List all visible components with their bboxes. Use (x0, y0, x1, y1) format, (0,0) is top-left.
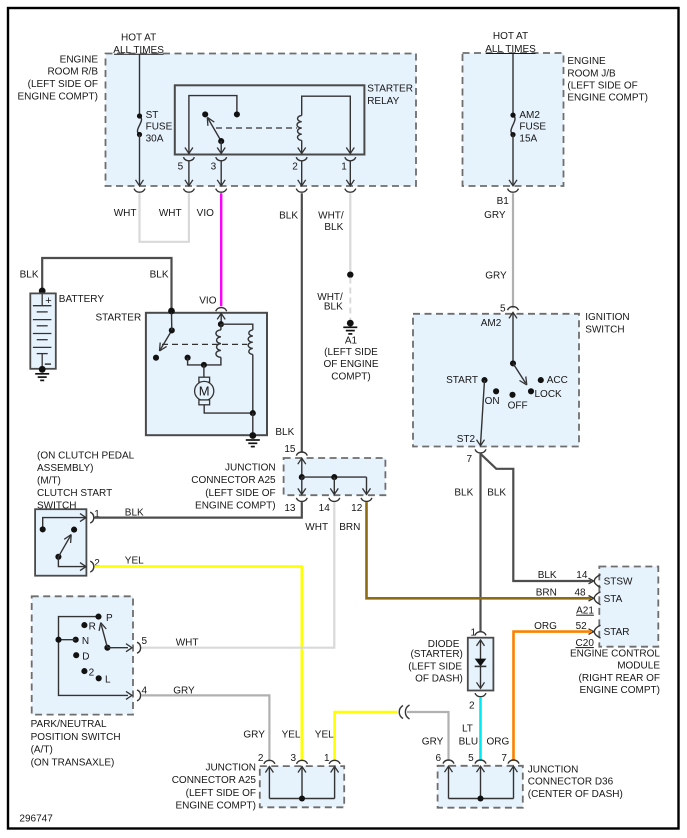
clutch start switch box (35, 509, 86, 576)
svg-text:JUNCTION: JUNCTION (225, 462, 276, 473)
connector A25b pin 1 (324, 753, 340, 773)
P/N left bus (59, 617, 133, 700)
page number 296747 (19, 814, 53, 825)
svg-text:FUSE: FUSE (519, 122, 546, 133)
label BLK (right) (487, 487, 506, 498)
svg-text:AM2: AM2 (481, 318, 502, 329)
svg-text:ENGINE COMPT): ENGINE COMPT) (567, 93, 648, 104)
relay contact feed wire (pin 5 hook) (185, 96, 240, 154)
label BLK (starter feed) (150, 269, 169, 280)
connector clutch pin 2 (90, 558, 100, 572)
starter pull-in coil (204, 313, 224, 365)
svg-text:R: R (89, 621, 96, 632)
svg-text:GRY: GRY (484, 210, 506, 221)
label ST2 (457, 434, 476, 445)
wire BLK battery to starter (42, 258, 171, 310)
svg-text:AM2: AM2 (519, 110, 540, 121)
diode (starter) box (468, 638, 494, 691)
starter motor node (201, 362, 207, 368)
svg-text:CONNECTOR A25: CONNECTOR A25 (191, 475, 276, 486)
relay switch arm (207, 117, 224, 144)
svg-text:ORG: ORG (487, 736, 510, 747)
svg-text:52: 52 (576, 621, 588, 632)
label GRY (lower) (485, 271, 507, 282)
node L (96, 675, 111, 686)
wire VIO relay pin 3 to starter (220, 193, 222, 306)
wire LT BLU diode to D36 pin 5 (479, 697, 482, 761)
svg-text:ASSEMBLY): ASSEMBLY) (37, 463, 94, 474)
label WHT (P/N) (176, 638, 199, 649)
svg-text:7: 7 (466, 454, 472, 465)
wire GRY B1 to ignition switch (512, 193, 514, 308)
label C20 (576, 638, 595, 649)
ignition switch box (413, 314, 579, 447)
svg-text:B1: B1 (497, 196, 510, 207)
wire hot feed to AM2 fuse (512, 54, 514, 115)
svg-text:(CENTER OF DASH): (CENTER OF DASH) (528, 789, 623, 800)
svg-text:ACC: ACC (547, 375, 568, 386)
park/neutral position switch box (32, 596, 133, 714)
svg-text:STARTER: STARTER (367, 84, 413, 95)
wire GRY P/N to A25 bottom pin 2 (141, 695, 269, 761)
svg-text:GRY: GRY (243, 729, 265, 740)
svg-text:N: N (82, 636, 89, 647)
label A1 (323, 336, 378, 383)
A25 bottom internal bus (269, 767, 334, 802)
node R (81, 621, 95, 632)
label WHT/BLK (mid) (317, 292, 343, 313)
label GRY (D36) (422, 736, 444, 747)
svg-text:IGNITION: IGNITION (585, 312, 629, 323)
node START (446, 375, 487, 386)
wire ST fuse to R/B edge (136, 135, 144, 186)
svg-text:STA: STA (604, 594, 623, 605)
ground A1 (343, 320, 357, 334)
label YEL (clutch pin 2) (125, 555, 144, 566)
label BLK (left) (454, 487, 473, 498)
svg-text:PARK/NEUTRAL: PARK/NEUTRAL (31, 719, 107, 730)
svg-text:ENGINE COMPT): ENGINE COMPT) (17, 92, 98, 103)
svg-text:WHT: WHT (305, 522, 328, 533)
svg-text:1: 1 (470, 627, 476, 638)
relay mechanical link (dashed) (216, 127, 297, 129)
starter hold-in coil (221, 324, 253, 413)
svg-text:(A/T): (A/T) (31, 745, 53, 756)
svg-text:6: 6 (435, 753, 441, 764)
relay box STARTER RELAY (175, 85, 365, 154)
connector ECM pin 52 STAR (589, 625, 630, 638)
starter box (146, 313, 267, 435)
connector ignition pin 7 ST2 (466, 449, 486, 465)
wire YEL A25 bottom pin 1 to connector (335, 712, 398, 761)
node ON (485, 388, 500, 407)
wire YEL clutch to A25 bottom pin 3 (95, 567, 302, 762)
label BLK (clutch pin 1) (125, 507, 144, 518)
label diode caption (408, 639, 463, 685)
svg-text:BLK: BLK (538, 570, 557, 581)
connector ECM pin 14 STSW (589, 575, 634, 588)
connector ignition pin 5 (500, 303, 519, 318)
svg-text:ON: ON (485, 396, 500, 407)
label VIO (at starter) (199, 296, 216, 307)
node D (73, 652, 89, 663)
svg-text:DIODE: DIODE (428, 639, 460, 650)
label BRN 48 (536, 588, 586, 599)
svg-text:BRN: BRN (536, 588, 557, 599)
ground (starter) (246, 432, 260, 447)
svg-text:YEL: YEL (315, 729, 334, 740)
svg-text:BATTERY: BATTERY (59, 294, 105, 305)
svg-text:C20: C20 (576, 638, 595, 649)
svg-text:STARTER: STARTER (95, 313, 141, 324)
svg-text:WHT: WHT (114, 208, 137, 219)
svg-text:HOT AT: HOT AT (121, 32, 156, 43)
svg-text:1: 1 (341, 161, 347, 172)
label LT BLU (D36) (459, 723, 478, 747)
junction connector A25 box (284, 458, 386, 495)
motor M (195, 365, 253, 413)
inline connector (YEL/GRY) (399, 705, 409, 719)
label YEL (pin 1) (315, 729, 334, 740)
connector VIO at starter (216, 308, 227, 320)
wire WHT/BLK dashed to ground A1 (349, 278, 351, 322)
starter ground node (250, 410, 256, 435)
label A21 (576, 606, 594, 617)
svg-text:(ON TRANSAXLE): (ON TRANSAXLE) (31, 757, 115, 768)
clutch switch contact (pin1 side) (40, 514, 86, 533)
svg-text:12: 12 (351, 503, 363, 514)
svg-text:5: 5 (468, 753, 474, 764)
label STARTER RELAY (367, 84, 413, 107)
label JUNCTION CONNECTOR D36 (528, 764, 623, 799)
wire BRN A25 pin 12 to ECM pin 48 (367, 502, 592, 598)
svg-text:COMPT): COMPT) (331, 371, 370, 382)
label ORG 52 (534, 621, 587, 632)
svg-text:(LEFT SIDE OF: (LEFT SIDE OF (186, 788, 256, 799)
wire BLK ST2 to diode (479, 454, 481, 632)
fuse ST FUSE 30A (137, 110, 173, 145)
A25 internal bus (298, 458, 371, 494)
svg-text:VIO: VIO (199, 296, 216, 307)
connector diode pin 2 (469, 693, 486, 712)
svg-text:L: L (105, 675, 111, 686)
ignition feed wire (512, 312, 514, 363)
svg-text:BRN: BRN (339, 522, 360, 533)
svg-text:5: 5 (178, 161, 184, 172)
label STARTER (95, 313, 141, 324)
P/N switch arm (99, 623, 110, 651)
connector ECM pin 48 STA (589, 592, 623, 605)
svg-text:ENGINE COMPT): ENGINE COMPT) (175, 801, 256, 812)
label ECM caption (570, 649, 660, 697)
label JUNCTION CONNECTOR A25 (middle) (191, 462, 276, 511)
svg-text:ROOM J/B: ROOM J/B (567, 68, 616, 79)
wire WHT fuse-to-relay jumper (140, 193, 189, 242)
svg-text:15A: 15A (519, 133, 537, 144)
svg-text:48: 48 (574, 588, 586, 599)
svg-text:ORG: ORG (534, 621, 557, 632)
clutch switch arm (55, 535, 71, 560)
svg-text:296747: 296747 (19, 814, 53, 825)
svg-text:POSITION SWITCH: POSITION SWITCH (31, 732, 121, 743)
svg-text:BLK: BLK (454, 487, 473, 498)
svg-text:BLK: BLK (20, 269, 39, 280)
label WHT/BLK (pin 1) (318, 211, 344, 234)
label ORG (D36) (487, 736, 510, 747)
label IGNITION SWITCH (585, 312, 629, 335)
starter feed node (168, 308, 175, 315)
svg-text:BLK: BLK (275, 427, 294, 438)
svg-text:ENGINE COMPT): ENGINE COMPT) (579, 685, 660, 696)
label YEL (pin 3) (282, 729, 301, 740)
ignition rotor arm (510, 360, 527, 385)
junction connector A25 bottom box (260, 766, 344, 807)
relay pin 2 connector (292, 157, 307, 192)
fuse AM2 FUSE 15A (510, 110, 546, 145)
svg-text:LT: LT (462, 723, 473, 734)
clutch switch upper contact (71, 527, 77, 533)
svg-text:P: P (106, 613, 113, 624)
svg-text:JUNCTION: JUNCTION (205, 763, 256, 774)
svg-text:LOCK: LOCK (535, 389, 563, 400)
label HOT AT ALL TIMES (right) (485, 31, 536, 55)
label GRY (P/N) (173, 686, 195, 697)
svg-text:ST: ST (146, 110, 159, 121)
label HOT AT ALL TIMES (left) (113, 32, 164, 56)
svg-text:A1: A1 (345, 336, 358, 347)
node LOCK (528, 388, 562, 400)
svg-text:BLU: BLU (459, 736, 478, 747)
label clutch switch caption (37, 451, 135, 512)
svg-text:STSW: STSW (604, 577, 633, 588)
wire GRY connector to D36 pin 6 (407, 712, 449, 761)
svg-text:HOT AT: HOT AT (493, 31, 528, 42)
svg-text:OF DASH): OF DASH) (415, 674, 463, 685)
svg-text:(STARTER): (STARTER) (410, 649, 462, 660)
svg-text:14: 14 (319, 503, 331, 514)
label ENGINE ROOM R/B (17, 54, 98, 102)
svg-text:3: 3 (290, 753, 296, 764)
label park/neutral caption (31, 719, 121, 768)
svg-text:(LEFT SIDE OF: (LEFT SIDE OF (205, 488, 275, 499)
svg-text:BLK: BLK (279, 211, 298, 222)
relay arm to pin 3 (217, 141, 225, 153)
battery BATTERY (30, 288, 56, 373)
connector at R/B edge (fuse output) (134, 189, 145, 193)
svg-text:CLUTCH START: CLUTCH START (37, 488, 112, 499)
svg-text:CONNECTOR D36: CONNECTOR D36 (528, 777, 614, 788)
svg-text:(LEFT SIDE: (LEFT SIDE (324, 347, 378, 358)
svg-text:15: 15 (284, 444, 296, 455)
svg-text:GRY: GRY (422, 736, 444, 747)
relay fixed contact (202, 111, 208, 117)
svg-text:YEL: YEL (282, 729, 301, 740)
wire BLK relay pin 2 to junction A25 pin 15 (301, 193, 303, 452)
svg-text:30A: 30A (146, 133, 164, 144)
connector D36 pin 7 (501, 753, 519, 772)
node 2 (81, 668, 94, 679)
connector A25 pin 12 (351, 498, 372, 514)
svg-text:BLK: BLK (487, 487, 506, 498)
starter solenoid switch (153, 313, 175, 361)
label AM2 (ignition) (481, 318, 502, 329)
svg-text:D: D (82, 652, 89, 663)
connector A25b pin 2 (258, 753, 275, 773)
node N (55, 636, 89, 647)
svg-text:14: 14 (576, 570, 588, 581)
svg-text:+: + (45, 295, 51, 307)
svg-text:STAR: STAR (604, 627, 630, 638)
relay pin 1 connector (341, 157, 356, 192)
relay pin 5 connector (178, 157, 195, 192)
relay pin 3 connector (211, 157, 227, 192)
svg-text:JUNCTION: JUNCTION (528, 764, 579, 775)
label WHT (pin 14) (305, 522, 328, 533)
connector B1 (497, 189, 519, 207)
svg-text:CONNECTOR A25: CONNECTOR A25 (172, 775, 257, 786)
connector D36 pin 5 (468, 753, 486, 772)
connector A25 pin 13 (284, 498, 307, 514)
wire WHT/BLK relay pin 1 (349, 193, 351, 272)
svg-text:FUSE: FUSE (146, 122, 173, 133)
clutch switch arm to pin 2 (58, 557, 86, 571)
starter ST contact (185, 355, 204, 365)
svg-text:YEL: YEL (125, 555, 144, 566)
wire BLK ST2 to ECM pin 14 (481, 454, 592, 581)
label BLK 14 (538, 570, 588, 581)
svg-text:ROOM R/B: ROOM R/B (47, 67, 98, 78)
connector P/N pin 5 (137, 636, 148, 653)
svg-text:BLK: BLK (324, 302, 343, 313)
label BLK (battery) (20, 269, 39, 280)
svg-text:START: START (446, 375, 478, 386)
connector diode pin 1 (470, 627, 486, 638)
wire ORG ECM pin 52 to D36 pin 7 (514, 632, 592, 761)
svg-text:SWITCH: SWITCH (585, 324, 624, 335)
svg-text:OFF: OFF (508, 400, 528, 411)
label BRN (pin 12) (339, 522, 360, 533)
svg-text:5: 5 (500, 303, 506, 314)
wire from hot feed to ST fuse (139, 55, 141, 117)
node on WHT/BLK wire (347, 272, 353, 278)
svg-text:5: 5 (142, 636, 148, 647)
svg-text:A21: A21 (576, 606, 594, 617)
connector A25 pin 15 (284, 444, 307, 464)
node OFF (508, 392, 528, 412)
label VIO (197, 208, 214, 219)
label GRY (A25 bottom) (243, 729, 265, 740)
svg-text:ENGINE: ENGINE (567, 56, 606, 67)
connector clutch pin 1 (90, 509, 100, 523)
svg-text:(M/T): (M/T) (37, 476, 61, 487)
junction block ENGINE ROOM R/B box (106, 54, 417, 187)
svg-text:(RIGHT REAR OF: (RIGHT REAR OF (579, 673, 660, 684)
svg-text:ENGINE: ENGINE (60, 54, 99, 65)
wire START to ST2 (477, 380, 485, 446)
svg-text:ST2: ST2 (457, 434, 476, 445)
label ENGINE ROOM J/B (567, 56, 648, 104)
svg-text:2: 2 (469, 701, 475, 712)
svg-text:2: 2 (258, 753, 264, 764)
svg-text:BLK: BLK (150, 269, 169, 280)
svg-text:1: 1 (324, 753, 330, 764)
label JUNCTION CONNECTOR A25 (bottom) (172, 763, 257, 812)
svg-text:RELAY: RELAY (367, 96, 399, 107)
label BLK (to A25) (275, 427, 294, 438)
svg-text:GRY: GRY (485, 271, 507, 282)
node P (95, 613, 113, 624)
wire AM2 fuse to J/B edge (509, 135, 517, 186)
svg-text:WHT/: WHT/ (318, 211, 344, 222)
svg-text:(LEFT SIDE OF: (LEFT SIDE OF (28, 79, 98, 90)
svg-text:7: 7 (501, 753, 507, 764)
svg-text:(ON CLUTCH PEDAL: (ON CLUTCH PEDAL (37, 451, 135, 462)
engine control module box (599, 567, 658, 647)
svg-text:(LEFT SIDE OF: (LEFT SIDE OF (567, 81, 637, 92)
svg-text:13: 13 (284, 503, 296, 514)
svg-text:ENGINE COMPT): ENGINE COMPT) (195, 501, 276, 512)
svg-text:ENGINE CONTROL: ENGINE CONTROL (570, 649, 660, 660)
svg-text:2: 2 (292, 161, 298, 172)
svg-text:VIO: VIO (197, 208, 214, 219)
svg-text:(LEFT SIDE: (LEFT SIDE (408, 662, 462, 673)
label GRY (upper) (484, 210, 506, 221)
svg-text:OF ENGINE: OF ENGINE (323, 359, 378, 370)
connector A25 pin 14 (319, 498, 340, 514)
label BATTERY (59, 294, 105, 305)
svg-text:M: M (199, 384, 210, 399)
svg-text:WHT: WHT (176, 638, 199, 649)
wire WHT A25 pin 14 to park/neutral pin 5 (141, 502, 334, 648)
svg-text:WHT: WHT (159, 208, 182, 219)
starter mechanical link (dashed) (162, 343, 247, 345)
label WHT (pin 5) (159, 208, 182, 219)
label BLK (pin 2) (279, 211, 298, 222)
D36 internal bus (449, 766, 514, 801)
connector P/N pin 4 (137, 686, 148, 701)
svg-text:BLK: BLK (324, 222, 343, 233)
label WHT (fuse side) (114, 208, 137, 219)
svg-text:3: 3 (211, 161, 217, 172)
relay coil (297, 96, 354, 153)
connector D36 pin 6 (435, 753, 454, 772)
junction block ENGINE ROOM J/B box (463, 53, 564, 186)
node ACC (538, 375, 568, 386)
P/N arm to pin 5 (107, 644, 132, 652)
svg-text:2: 2 (89, 668, 95, 679)
ground (battery) (35, 374, 49, 381)
svg-text:MODULE: MODULE (617, 661, 660, 672)
wire BLK clutch to A25 pin 13 (95, 502, 302, 517)
connector A25b pin 3 (290, 753, 307, 773)
junction connector D36 box (438, 766, 523, 808)
